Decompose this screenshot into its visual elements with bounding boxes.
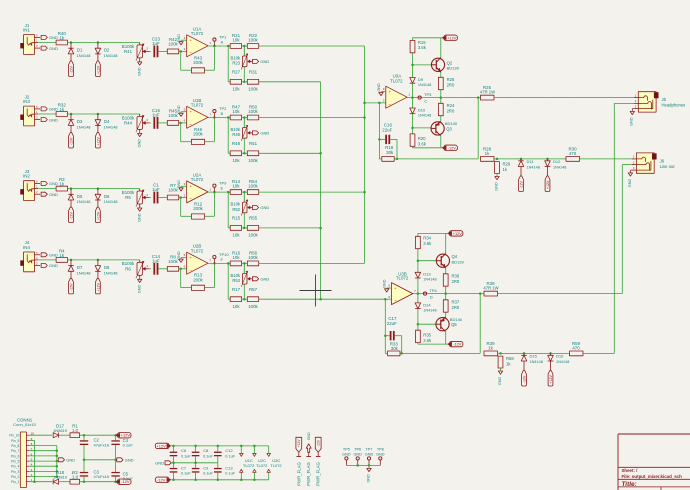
resistor R46 200k	[191, 127, 204, 145]
wire	[205, 263, 215, 287]
resistor R48 10k	[230, 141, 241, 163]
svg-text:1N4148: 1N4148	[77, 53, 92, 58]
diode D9 1N4148	[410, 77, 432, 87]
potentiometer R49 B10k pan	[230, 118, 252, 141]
wire	[440, 38, 442, 78]
svg-text:1N4148: 1N4148	[104, 125, 119, 130]
resistor R27 10k	[230, 70, 241, 92]
diode D14 1N4148	[415, 302, 437, 312]
svg-text:A: A	[221, 40, 224, 45]
power -12V flag	[442, 145, 458, 150]
diode D3 1N4148	[68, 114, 91, 133]
ground at J1 pin 1	[41, 35, 58, 40]
svg-text:10k: 10k	[232, 109, 240, 114]
wire	[208, 262, 230, 265]
node junction	[227, 262, 230, 265]
svg-text:TP5: TP5	[343, 448, 350, 452]
svg-text:J5: J5	[662, 97, 667, 102]
svg-text:GND: GND	[260, 205, 269, 210]
svg-text:Pin_10: Pin_10	[9, 434, 19, 438]
op-amp U2A TL072	[184, 172, 212, 203]
resistor R43 200k	[191, 55, 204, 73]
svg-text:R49: R49	[232, 132, 240, 137]
svg-text:100k: 100k	[248, 184, 258, 189]
wire to U3B input	[259, 298, 387, 301]
diode D17 1N5819	[53, 423, 68, 438]
svg-text:-12V: -12V	[522, 375, 526, 383]
svg-text:10k: 10k	[232, 87, 240, 92]
svg-text:GND: GND	[260, 59, 269, 64]
transistor Q5 BD140	[436, 317, 463, 332]
svg-text:B100k: B100k	[122, 115, 135, 120]
svg-text:GND: GND	[137, 285, 141, 294]
svg-text:TL072: TL072	[396, 276, 409, 281]
resistor R38 47R 1W	[483, 281, 498, 296]
wire pin9 riser	[30, 440, 53, 483]
power +12V flag	[155, 443, 171, 448]
svg-text:TL072: TL072	[270, 463, 282, 468]
svg-text:−: −	[189, 268, 192, 273]
svg-text:1k: 1k	[59, 253, 64, 258]
capacitor C13 0.1uF	[214, 463, 236, 480]
wire	[385, 352, 480, 355]
svg-text:GND: GND	[177, 105, 181, 114]
svg-text:100k: 100k	[248, 304, 258, 309]
wire	[80, 434, 117, 437]
capacitor C3 47uF	[72, 460, 110, 479]
resistor R39 1k	[484, 341, 498, 356]
svg-text:470: 470	[569, 151, 577, 156]
svg-text:+12V: +12V	[96, 282, 100, 291]
wire	[228, 263, 230, 299]
ground at J6	[628, 170, 633, 187]
op-amp U2C TL072 power	[253, 446, 269, 480]
wire	[181, 40, 187, 41]
svg-text:10k: 10k	[232, 255, 240, 260]
power +12V flag	[115, 433, 131, 438]
wire	[59, 481, 70, 483]
svg-text:R37: R37	[452, 300, 460, 305]
svg-text:100k: 100k	[248, 158, 258, 163]
title block frame	[618, 434, 690, 490]
svg-text:2R0: 2R0	[452, 305, 460, 310]
svg-text:C7: C7	[181, 466, 187, 471]
power +12V at D8	[96, 278, 101, 294]
resistor R55 100k	[247, 216, 258, 238]
power +12V at D12	[545, 176, 550, 192]
svg-text:R25: R25	[447, 77, 455, 82]
wire gnd row	[83, 445, 117, 461]
svg-text:B: B	[221, 111, 224, 116]
svg-text:R27: R27	[232, 70, 241, 75]
svg-text:R17: R17	[232, 287, 241, 292]
svg-text:BD140: BD140	[450, 317, 463, 322]
wire	[477, 98, 479, 159]
svg-text:B10k: B10k	[230, 127, 240, 132]
diode D8 1N4148	[95, 260, 118, 279]
wire	[179, 122, 187, 125]
svg-text:−: −	[388, 102, 391, 107]
connector J1 input jack IN1	[20, 23, 40, 55]
wire	[38, 42, 56, 44]
connector CONN1 Conn_01x10	[9, 418, 36, 488]
svg-text:1k: 1k	[59, 182, 64, 187]
svg-text:GND: GND	[383, 279, 387, 288]
power -12V at D11	[519, 176, 524, 192]
svg-text:30k: 30k	[391, 346, 399, 351]
power -12V flag	[115, 479, 131, 484]
svg-text:D9: D9	[418, 77, 424, 82]
svg-text:TL072: TL072	[390, 78, 403, 83]
wire	[181, 186, 187, 187]
svg-text:GND: GND	[49, 107, 58, 112]
wire	[445, 312, 447, 318]
svg-text:R36: R36	[452, 274, 460, 279]
svg-text:Q4: Q4	[452, 254, 458, 259]
wire	[378, 103, 385, 159]
wire	[208, 45, 230, 48]
capacitor C17 22uF	[387, 316, 397, 341]
svg-text:R5: R5	[125, 195, 131, 200]
wire	[243, 67, 245, 82]
svg-text:−: −	[189, 50, 192, 55]
svg-text:100k: 100k	[248, 87, 258, 92]
wire	[205, 192, 215, 216]
wire	[243, 213, 245, 228]
ground	[366, 465, 371, 482]
svg-text:R51: R51	[249, 141, 258, 146]
svg-text:-12V: -12V	[121, 479, 130, 484]
ground at R29	[494, 174, 499, 191]
resistor R51 100k	[247, 141, 258, 163]
ground at R58	[498, 368, 503, 385]
ground at J2 pin 3	[41, 117, 58, 122]
resistor R45 100k	[167, 109, 178, 126]
resistor R3 1k	[56, 177, 67, 191]
svg-text:C12: C12	[225, 448, 233, 453]
resistor R42 100k	[167, 37, 178, 54]
svg-text:1k: 1k	[485, 151, 490, 156]
wire to bus B	[259, 227, 321, 229]
svg-text:1N4148: 1N4148	[423, 308, 436, 312]
wire	[411, 83, 414, 108]
node junction	[227, 116, 230, 119]
wire to bus A	[259, 117, 365, 119]
svg-text:B100k: B100k	[122, 261, 135, 266]
resistor R57 100k	[247, 287, 258, 309]
op-amp U3B TL072	[388, 271, 416, 304]
wire	[208, 116, 230, 119]
node junction	[70, 41, 99, 44]
svg-text:47uFx16: 47uFx16	[94, 442, 110, 447]
resistor R33 30k	[388, 342, 400, 356]
power -12V at D15	[522, 371, 527, 387]
diode D10 1N4148	[410, 107, 432, 117]
svg-text:GND: GND	[353, 453, 362, 457]
resistor R54 100k	[247, 179, 258, 194]
resistor R40 1k	[56, 31, 67, 45]
resistor R20 3.6k	[410, 134, 427, 147]
wire	[38, 188, 56, 190]
svg-text:1N4148: 1N4148	[556, 360, 569, 364]
ground at J4 pin 1	[41, 253, 58, 258]
svg-text:3.6k: 3.6k	[423, 241, 432, 246]
wire	[181, 51, 192, 70]
wire	[411, 53, 431, 78]
ground at R52 wiper	[252, 205, 269, 210]
node junction	[227, 191, 230, 194]
wire	[411, 114, 431, 134]
diode D12 1N4148	[545, 159, 567, 176]
svg-text:GND: GND	[366, 474, 370, 483]
diode D13 1N4148	[415, 272, 437, 282]
transistor Q4 BD139	[436, 254, 464, 269]
resistor R34 3.6k	[416, 236, 433, 249]
power -12V flag	[155, 477, 171, 482]
wire	[346, 464, 380, 467]
svg-text:470: 470	[572, 346, 580, 351]
svg-text:D6: D6	[104, 194, 110, 199]
wire	[84, 477, 116, 482]
wire	[479, 294, 481, 354]
svg-text:GND: GND	[66, 458, 75, 463]
svg-text:R48: R48	[232, 141, 241, 146]
svg-text:GND: GND	[342, 453, 351, 457]
svg-text:TL072: TL072	[191, 248, 204, 253]
svg-text:1k: 1k	[488, 346, 493, 351]
resistor R7 100k	[167, 183, 178, 200]
svg-text:Pin_9: Pin_9	[11, 439, 19, 443]
resistor R32 1k	[56, 103, 67, 117]
svg-text:1N4148: 1N4148	[104, 271, 119, 276]
wire	[413, 135, 442, 148]
resistor R47 10k	[230, 105, 241, 120]
svg-text:R44: R44	[124, 121, 133, 126]
svg-text:GND: GND	[49, 181, 58, 186]
diode D15 1N4148	[521, 353, 543, 370]
svg-text:GND: GND	[49, 117, 58, 122]
wire to J5	[494, 97, 634, 99]
svg-text:2R0: 2R0	[452, 279, 460, 284]
svg-text:C8: C8	[203, 448, 209, 453]
svg-text:C13: C13	[225, 466, 233, 471]
svg-text:1N4148: 1N4148	[77, 125, 92, 130]
connector J2 input jack IN3	[20, 94, 40, 126]
capacitor C8 0.1uF	[192, 446, 214, 463]
svg-text:B10k: B10k	[230, 55, 240, 60]
wire	[384, 299, 389, 353]
wire	[385, 298, 391, 300]
svg-text:3.6k: 3.6k	[423, 338, 432, 343]
capacitor C9 0.1uF	[192, 463, 214, 480]
svg-text:+12V: +12V	[96, 211, 100, 220]
resistor R58 1k	[498, 356, 514, 368]
svg-text:R31: R31	[249, 70, 258, 75]
ground at J5	[630, 109, 635, 126]
node junction	[70, 259, 99, 262]
wire	[181, 123, 192, 142]
resistor R35 3.6k	[416, 330, 433, 343]
svg-text:200k: 200k	[193, 60, 203, 65]
svg-text:B100k: B100k	[122, 190, 135, 195]
op-amp U1C TL072 power	[240, 446, 256, 480]
svg-text:-12V: -12V	[69, 66, 73, 74]
test point TP6	[353, 448, 362, 466]
svg-text:GND: GND	[155, 460, 164, 465]
svg-text:10k: 10k	[232, 304, 240, 309]
ground at U3A +input	[377, 83, 383, 96]
transistor Q2 BD139	[431, 58, 459, 73]
svg-text:D: D	[430, 295, 433, 300]
wire	[418, 233, 447, 236]
power +12V flag	[442, 35, 458, 40]
test point TP1	[213, 35, 227, 46]
resistor R30 470	[566, 147, 580, 162]
svg-text:1N4148: 1N4148	[527, 165, 540, 169]
svg-text:+12V: +12V	[549, 375, 553, 384]
test point TP2	[213, 106, 227, 117]
wire	[242, 81, 248, 84]
svg-text:GND: GND	[307, 432, 311, 440]
test point TP5	[342, 448, 351, 466]
svg-text:-12V: -12V	[519, 180, 523, 188]
svg-text:2R0: 2R0	[447, 108, 455, 113]
power +12V flag	[447, 231, 463, 236]
svg-text:1N4148: 1N4148	[418, 83, 431, 87]
wire	[395, 336, 402, 354]
ground label	[58, 458, 75, 463]
svg-text:GND: GND	[137, 139, 141, 148]
wire	[68, 188, 140, 190]
test point TP7	[365, 448, 374, 466]
svg-text:IN4: IN4	[23, 245, 30, 250]
svg-text:GND: GND	[260, 277, 269, 282]
wire	[179, 50, 187, 53]
ground at U2B +input	[177, 251, 183, 262]
svg-text:100k: 100k	[248, 109, 258, 114]
diode D6 1N4148	[95, 189, 118, 208]
svg-text:+12V: +12V	[96, 137, 100, 146]
wire	[444, 286, 447, 300]
diode D11 1N4148	[518, 159, 540, 176]
svg-text:PWR_FLAG: PWR_FLAG	[296, 462, 301, 486]
op-amp U1A TL072	[184, 26, 212, 57]
svg-text:TP4: TP4	[429, 288, 437, 293]
svg-text:1N4148: 1N4148	[553, 165, 566, 169]
wire	[59, 434, 70, 436]
wire -12V rail	[171, 479, 269, 482]
wire to bus B	[259, 81, 321, 83]
svg-text:-12V: -12V	[69, 212, 73, 220]
resistor R16 10k	[230, 251, 241, 266]
wire	[242, 45, 248, 48]
wire	[242, 227, 248, 230]
svg-text:B10k: B10k	[230, 202, 240, 207]
wire	[242, 298, 248, 301]
svg-text:1N5819: 1N5819	[53, 474, 68, 479]
ground at J3 pin 3	[41, 192, 58, 197]
power -12V at D1	[69, 61, 74, 77]
svg-text:BD139: BD139	[452, 259, 465, 264]
wire	[149, 50, 151, 52]
wire to bus A	[259, 45, 365, 47]
wire	[440, 90, 443, 104]
wire	[181, 112, 187, 113]
wire	[181, 269, 192, 288]
wire to J6	[580, 158, 634, 160]
svg-text:200k: 200k	[193, 132, 203, 137]
resistor R50 100k	[247, 105, 258, 120]
svg-text:R24: R24	[447, 103, 455, 108]
wire gnd rail	[171, 462, 218, 465]
wire	[242, 116, 248, 119]
resistor R21 10k	[230, 33, 241, 48]
svg-text:1N4148: 1N4148	[104, 53, 119, 58]
svg-text:D1: D1	[77, 48, 83, 53]
svg-text:Q5: Q5	[451, 322, 457, 327]
svg-text:0.1uF: 0.1uF	[225, 454, 235, 458]
svg-text:R53: R53	[232, 278, 240, 283]
title block text	[622, 468, 683, 488]
resistor R18 30k	[382, 145, 394, 161]
power -12V at D5	[69, 207, 74, 223]
svg-text:1uF: 1uF	[152, 258, 160, 263]
diode D1 1N4148	[68, 43, 91, 62]
capacitor C23 1uF	[152, 36, 161, 57]
wire J5 pin2 riser	[614, 103, 634, 353]
svg-text:TP3: TP3	[424, 92, 432, 97]
wire	[381, 91, 386, 94]
resistor R29 1k	[495, 162, 511, 174]
wire	[498, 293, 623, 295]
svg-text:-12V: -12V	[453, 342, 462, 347]
wire	[68, 42, 140, 44]
wire	[494, 158, 566, 161]
capacitor C4 0.1uF	[111, 435, 133, 447]
potentiometer R53 B10k pan	[230, 263, 252, 286]
ground at J4 pin 3	[41, 263, 58, 268]
wire	[418, 331, 447, 344]
svg-text:GND: GND	[494, 182, 498, 191]
svg-text:GND: GND	[125, 458, 134, 463]
wire	[242, 262, 248, 265]
wire	[205, 118, 215, 142]
power +12V at D2	[96, 61, 101, 77]
svg-text:BD140: BD140	[445, 121, 458, 126]
resistor R37 2R0	[443, 300, 460, 313]
wire	[417, 309, 437, 331]
diode D16 1N4148	[548, 353, 570, 370]
svg-text:D10: D10	[418, 107, 426, 112]
svg-text:1uF: 1uF	[152, 112, 160, 117]
ground at U1B +input	[177, 105, 183, 116]
wire	[228, 46, 230, 82]
ground at U2A +input	[177, 180, 183, 191]
svg-text:1uF: 1uF	[152, 41, 160, 46]
power flag PWR_FLAG +12V	[296, 437, 302, 486]
svg-text:Line out: Line out	[660, 164, 676, 169]
svg-text:GND: GND	[49, 263, 58, 268]
svg-text:1N5819: 1N5819	[53, 428, 68, 433]
svg-text:GND: GND	[628, 179, 632, 188]
svg-text:R35: R35	[423, 333, 431, 338]
svg-text:B10k: B10k	[230, 273, 240, 278]
power +12V at D4	[96, 133, 101, 149]
svg-text:+12V: +12V	[297, 439, 301, 448]
svg-text:File: output_mixer.kicad_sch: File: output_mixer.kicad_sch	[622, 474, 683, 479]
svg-text:200k: 200k	[193, 206, 203, 211]
svg-text:Pin_1: Pin_1	[11, 480, 19, 484]
